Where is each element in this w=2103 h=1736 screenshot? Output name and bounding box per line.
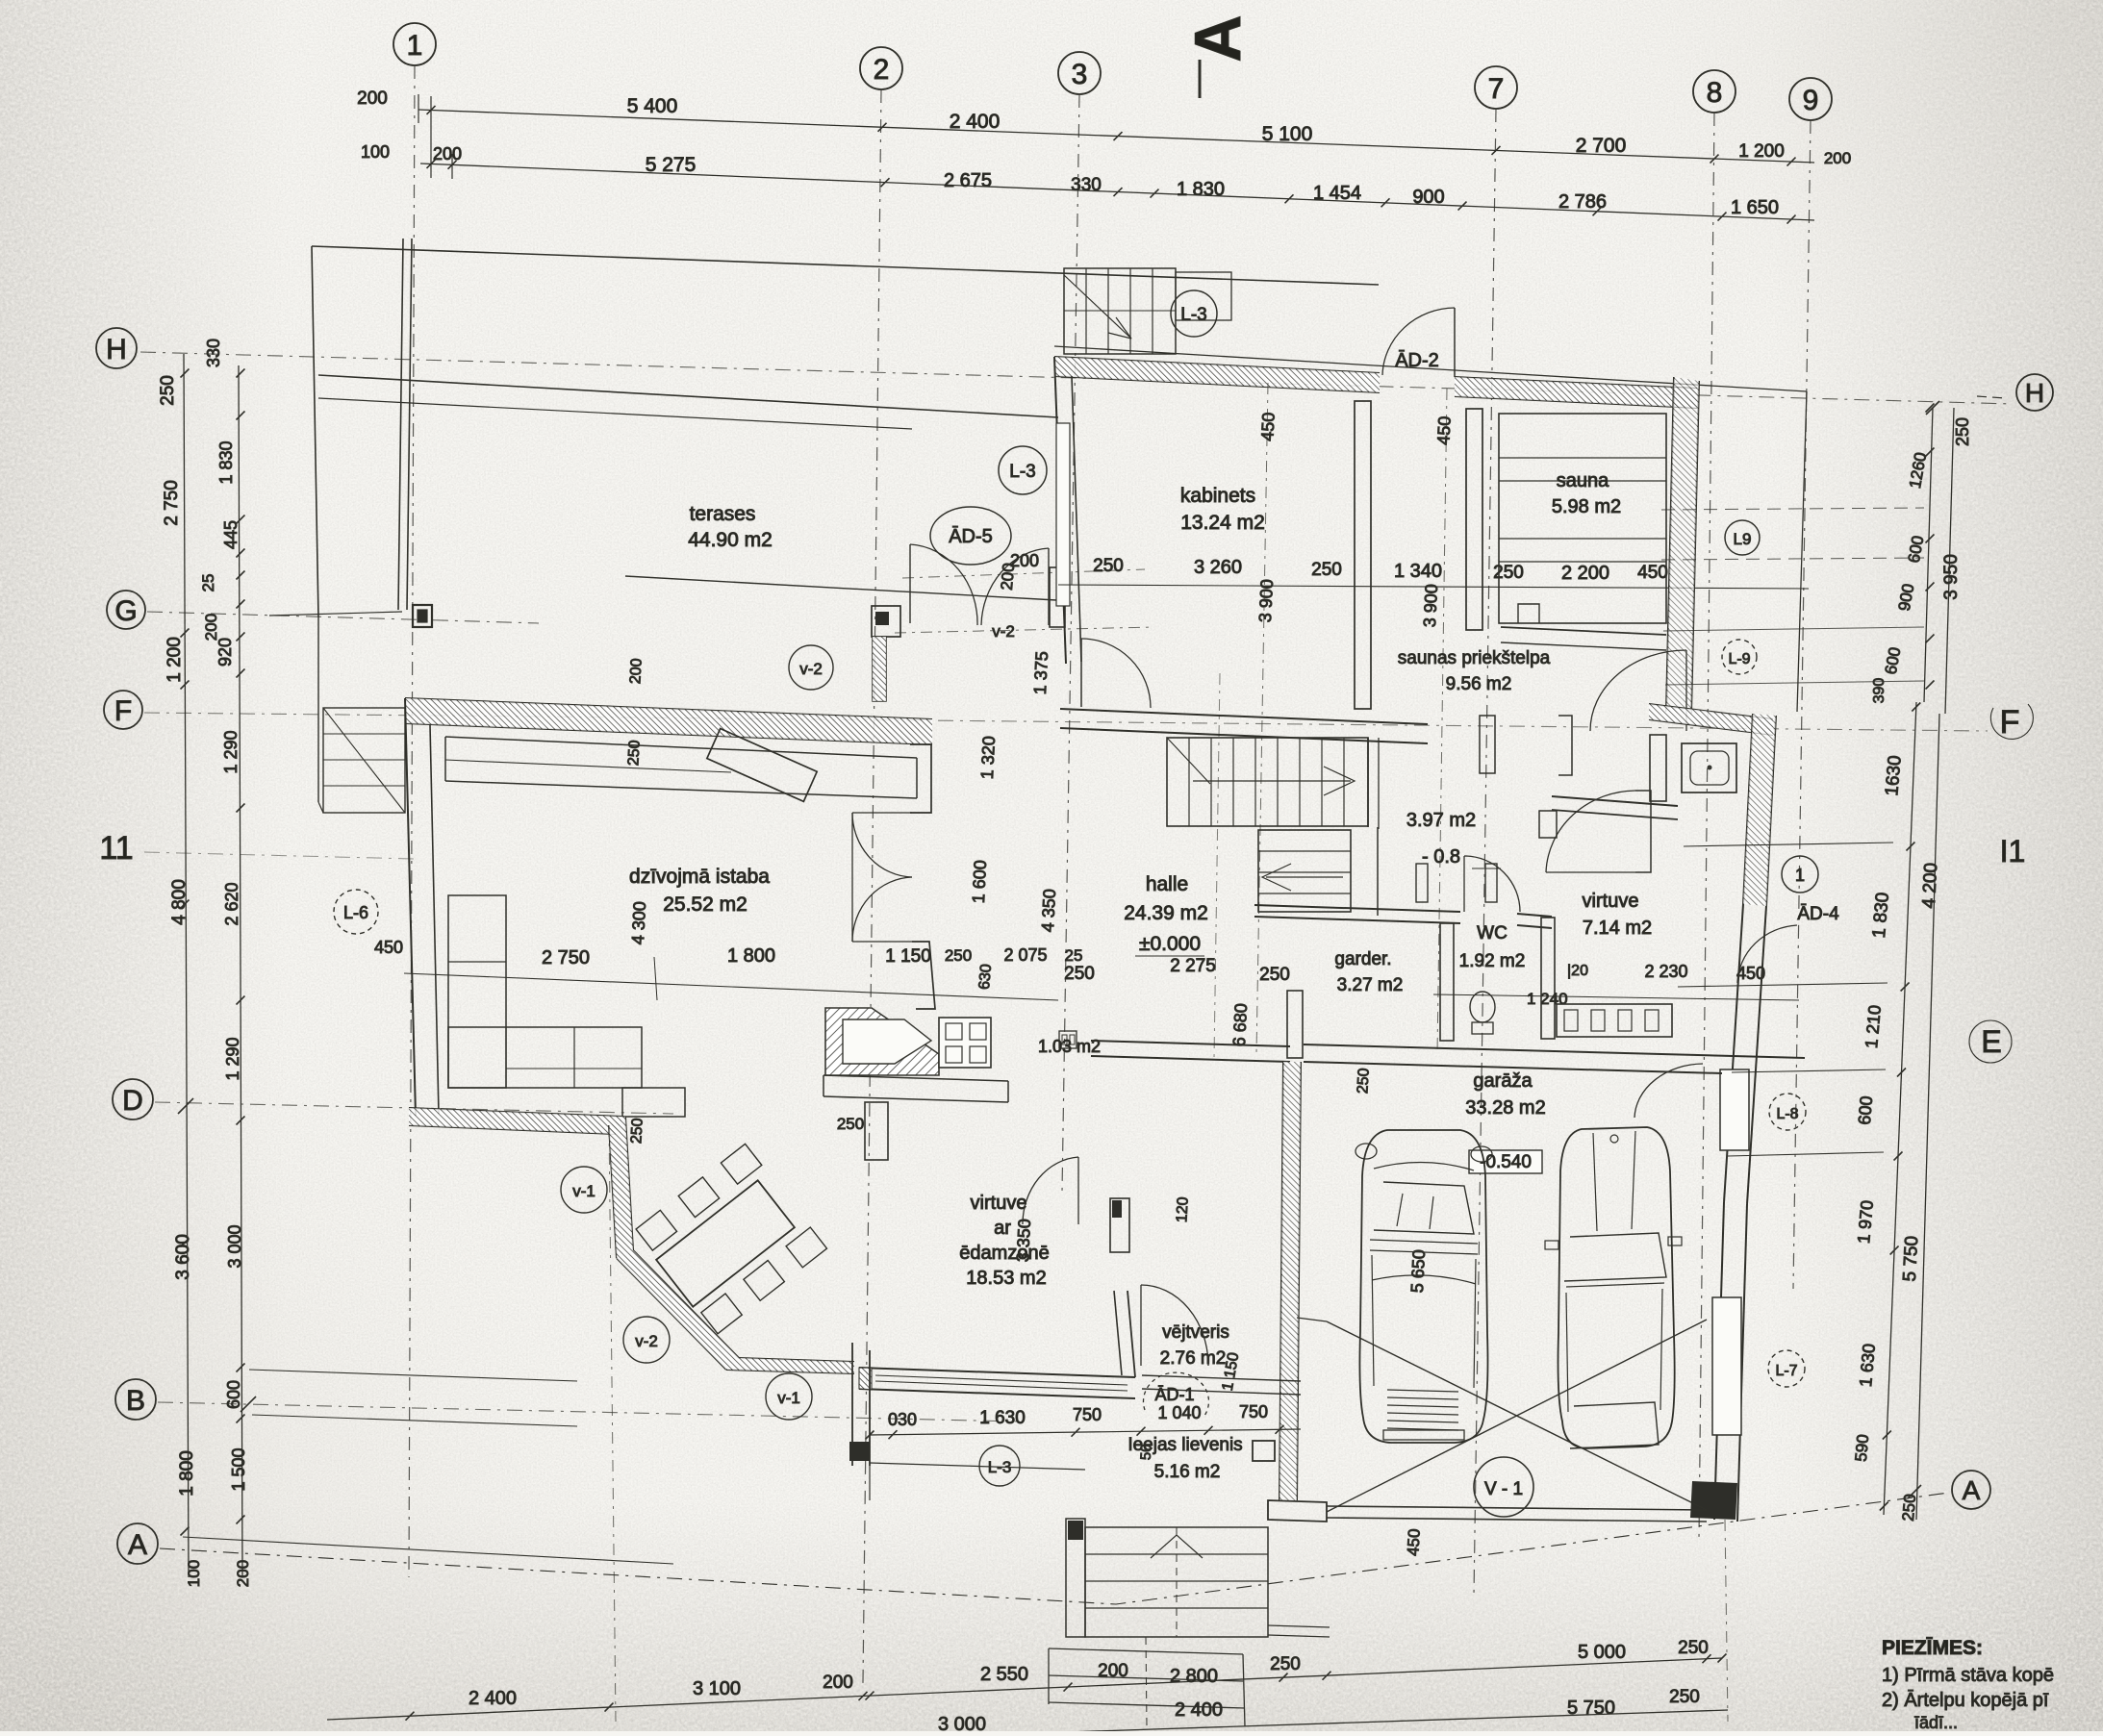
svg-text:100: 100 — [185, 1560, 203, 1587]
grid bubble A right — [1952, 1471, 1990, 1509]
svg-text:1 200: 1 200 — [1738, 141, 1785, 162]
grid line D — [155, 1102, 673, 1114]
svg-text:1 240: 1 240 — [1527, 990, 1568, 1008]
left inner tick y1165 — [237, 1117, 245, 1125]
right dim line upper — [1924, 408, 1933, 702]
door arc to vejtveris — [1023, 1157, 1078, 1224]
circle L-6 — [334, 890, 378, 934]
svg-text:2 275: 2 275 — [1170, 956, 1216, 976]
dim tick line1 x1555 — [1492, 146, 1501, 155]
svg-text:kabinets: kabinets — [1180, 485, 1255, 507]
terrace column block — [413, 605, 432, 627]
svg-text:590: 590 — [1852, 1434, 1872, 1463]
svg-text:5 275: 5 275 — [646, 154, 697, 176]
svg-text:5 100: 5 100 — [1262, 123, 1313, 145]
svg-text:4 300: 4 300 — [628, 901, 649, 945]
grid bubble B left — [115, 1379, 156, 1420]
kitchen peninsula stub — [865, 1102, 888, 1160]
svg-text:200: 200 — [1010, 551, 1039, 570]
rtick 470 — [1926, 448, 1935, 457]
rltick 1566 — [1880, 1502, 1888, 1511]
sauna heater notch — [1518, 604, 1539, 623]
toilet — [1470, 992, 1495, 1022]
v-2 centreline dash b — [895, 627, 1154, 633]
rltick 880 — [1906, 843, 1914, 851]
svg-text:2 400: 2 400 — [469, 1688, 517, 1709]
garage door lines — [1327, 1506, 1707, 1510]
svg-text:Ieejas lievenis: Ieejas lievenis — [1128, 1435, 1242, 1455]
porch right column — [1253, 1441, 1275, 1461]
svg-text:1 290: 1 290 — [221, 730, 241, 773]
south wall diagonal — [617, 1258, 726, 1370]
living room window ledge bottom — [445, 781, 917, 798]
svg-text:v-2: v-2 — [635, 1332, 658, 1350]
circle L-8 — [1769, 1094, 1806, 1130]
svg-text:250: 250 — [1270, 1654, 1301, 1674]
svg-text:vējtveris: vējtveris — [1162, 1322, 1229, 1343]
rltick 1202 — [1894, 1152, 1903, 1161]
svg-text:1 830: 1 830 — [216, 440, 236, 484]
grid bubble 9 — [1789, 78, 1832, 120]
circle v-1 lower — [766, 1373, 812, 1420]
dim connector 1a — [418, 94, 419, 123]
svg-text:450: 450 — [1404, 1528, 1423, 1556]
svg-text:3 950: 3 950 — [1941, 554, 1962, 600]
svg-text:750: 750 — [1239, 1402, 1268, 1422]
svg-text:250: 250 — [158, 375, 178, 406]
svg-text:250: 250 — [1899, 1494, 1919, 1522]
svg-text:3 000: 3 000 — [938, 1714, 986, 1731]
svg-text:2 230: 2 230 — [1644, 962, 1687, 981]
svg-text:450: 450 — [1637, 563, 1668, 583]
svg-text:250: 250 — [1953, 417, 1972, 446]
stairs break diag — [1167, 738, 1210, 784]
terrace door v-2 arcs — [909, 544, 911, 623]
left outer tick y1592 — [181, 1527, 190, 1536]
svg-text:250: 250 — [1678, 1638, 1709, 1658]
svg-text:1 290: 1 290 — [223, 1037, 242, 1080]
outdoor stair diagonal — [323, 708, 405, 813]
jamb wall left of terrace doors — [872, 606, 900, 637]
north wall right of AD-2 — [1455, 377, 1697, 389]
grid line B — [158, 1402, 1020, 1422]
svg-text:v-1: v-1 — [572, 1182, 595, 1200]
left inner tick y1580 — [237, 1516, 245, 1524]
right dim line outer — [1945, 408, 1954, 714]
grid line H — [140, 352, 2013, 404]
svg-text:100: 100 — [361, 142, 390, 162]
svg-text:5.16 m2: 5.16 m2 — [1154, 1462, 1221, 1482]
right A tick — [1908, 1485, 1921, 1498]
sofa cushion split — [448, 961, 506, 963]
svg-text:2 750: 2 750 — [542, 947, 590, 969]
svg-text:virtuve: virtuve — [1583, 891, 1639, 912]
east partition line 2 — [1678, 983, 1888, 987]
svg-text:V - 1: V - 1 — [1484, 1479, 1523, 1499]
left inner tick y540 — [237, 516, 245, 524]
grid tick B — [241, 1396, 256, 1412]
car 2 in garage — [1545, 1127, 1682, 1448]
dim tick line2 x920 — [881, 178, 890, 187]
virtuve north wall jamb — [1539, 811, 1557, 838]
svg-text:2 400: 2 400 — [950, 111, 1001, 133]
svg-text:450: 450 — [1257, 412, 1279, 441]
kabinets door arc — [1081, 639, 1151, 708]
svg-text:25: 25 — [199, 574, 217, 592]
svg-text:6 680: 6 680 — [1229, 1003, 1251, 1047]
svg-text:3 000: 3 000 — [225, 1224, 244, 1268]
bdim tick 904 — [866, 1692, 874, 1700]
svg-text:-0.540: -0.540 — [1480, 1152, 1532, 1172]
label ellipse AD-5 — [930, 507, 1011, 565]
dim tick line1 x448 — [427, 106, 436, 114]
svg-text:1 800: 1 800 — [727, 945, 775, 967]
rtick 424 — [1926, 404, 1935, 413]
grid bubble G left — [107, 591, 145, 629]
bdim tick 1774 — [1703, 1654, 1711, 1663]
v-2 wall below jamb — [873, 637, 886, 701]
bdim tick 1334 — [1280, 1673, 1288, 1682]
rltick 735 — [1912, 703, 1920, 712]
svg-text:44.90 m2: 44.90 m2 — [688, 529, 773, 551]
south wall west vertical — [609, 1125, 617, 1258]
svg-text:250: 250 — [625, 740, 643, 767]
svg-text:L-7: L-7 — [1775, 1363, 1797, 1379]
entry steps — [1085, 1527, 1268, 1637]
sauna interior box — [1499, 414, 1666, 623]
svg-text:garder.: garder. — [1334, 949, 1391, 969]
dim tick line1 x917 — [878, 123, 887, 132]
walk edge right of steps — [1268, 1625, 1330, 1627]
svg-text:L-3: L-3 — [1180, 305, 1206, 325]
living room north wall outer — [405, 698, 932, 719]
dim line at A — [183, 1537, 673, 1564]
left outer tick y388 — [181, 369, 190, 378]
svg-text:ĀD-5: ĀD-5 — [949, 525, 993, 547]
left inner tick y662 — [237, 633, 245, 642]
dim tick line2 x1162 — [1114, 188, 1123, 196]
left inner tick y598 — [237, 571, 245, 580]
AD-2 door leaf — [1454, 308, 1456, 377]
entry tick 1330 — [1276, 1425, 1284, 1434]
B row lower line — [252, 1415, 577, 1426]
bottom vertical dash a — [609, 1125, 616, 1722]
south wall bottom horizontal — [726, 1370, 854, 1373]
svg-text:5 750: 5 750 — [1900, 1235, 1922, 1282]
stair right wall — [1367, 738, 1369, 827]
entry tick 904 — [866, 1431, 874, 1440]
svg-text:2 400: 2 400 — [1175, 1699, 1223, 1721]
svg-text:1 210: 1 210 — [1862, 1004, 1885, 1049]
svg-text:1 500: 1 500 — [229, 1447, 248, 1491]
svg-text:ĀD-1: ĀD-1 — [1154, 1385, 1194, 1404]
lower approach steps — [1049, 1648, 1243, 1654]
V-1 circle — [1474, 1457, 1533, 1517]
left inner tick y575 — [237, 549, 245, 558]
svg-text:900: 900 — [1412, 187, 1444, 208]
garage door corner L — [1268, 1500, 1327, 1522]
section marker A bar — [1199, 60, 1202, 98]
svg-text:11: 11 — [99, 830, 133, 867]
ledge inner line — [445, 760, 731, 772]
svg-text:920: 920 — [215, 638, 235, 667]
rltick 1300 — [1890, 1246, 1899, 1255]
circle v-1 upper — [561, 1167, 607, 1213]
east wall hatched mid — [1743, 714, 1753, 904]
margin shading bottom-left blob — [0, 962, 673, 1731]
svg-text:33.28 m2: 33.28 m2 — [1465, 1097, 1545, 1119]
svg-text:L-8: L-8 — [1776, 1106, 1798, 1122]
stairs flight 1 — [1167, 738, 1368, 826]
svg-text:200: 200 — [1098, 1661, 1128, 1681]
svg-text:9.56 m2: 9.56 m2 — [1446, 674, 1512, 694]
svg-text:L-6: L-6 — [343, 903, 368, 922]
kabinets west wall — [1054, 357, 1066, 664]
svg-text:L-9: L-9 — [1728, 651, 1750, 667]
B row upper line — [249, 1370, 577, 1381]
ledge left end — [444, 737, 446, 781]
landing south wall — [1254, 905, 1460, 912]
dim tick line1 x1862 — [1787, 158, 1796, 166]
dim tick line2 x1340 — [1285, 194, 1294, 203]
left outer tick y940 — [181, 900, 190, 909]
dim tick line2 x1862 — [1787, 215, 1796, 224]
sauna bench lines — [1499, 457, 1666, 459]
east partition line 3 — [1732, 1069, 1886, 1072]
terrace north edge — [318, 375, 1058, 417]
left inner tick y840 — [237, 804, 245, 813]
upper stair diagonal — [1064, 275, 1131, 339]
svg-text:L9: L9 — [1734, 530, 1752, 548]
dim tick line2 x1520 — [1458, 202, 1467, 211]
window L-7 block — [1712, 1297, 1741, 1435]
svg-text:25: 25 — [1065, 946, 1083, 965]
svg-text:1630: 1630 — [1882, 755, 1906, 797]
entry tick 1256 — [1204, 1426, 1213, 1435]
bottom dim line 2 — [924, 1710, 1728, 1736]
jamb wall right of terrace doors — [1050, 567, 1065, 627]
dining table — [634, 1144, 827, 1335]
living room window ledge top — [445, 737, 917, 758]
garage east wall — [1714, 1202, 1724, 1520]
terrace south step edge — [625, 576, 1056, 600]
margin shading right — [1770, 0, 2103, 1731]
stairs flight1 arrow — [1193, 780, 1351, 782]
svg-text:250: 250 — [1311, 560, 1342, 580]
grid line II short — [144, 852, 414, 859]
svg-text:1 200: 1 200 — [165, 637, 185, 683]
entry steps centre dash — [1176, 1527, 1178, 1637]
wall stub hall-vejtveris — [1110, 1198, 1129, 1252]
dim connector 1c — [451, 154, 453, 179]
svg-text:B: B — [126, 1385, 145, 1417]
dim tick line2 x470 — [448, 161, 457, 169]
svg-text:8: 8 — [1707, 77, 1723, 109]
wall pieces below sauna — [1480, 716, 1495, 773]
svg-text:200: 200 — [1824, 149, 1851, 167]
left inner tick y432 — [237, 412, 245, 420]
garage door X brace — [1327, 1321, 1707, 1510]
dim tick line2 x448 — [427, 160, 436, 168]
dim tick line1 x1162 — [1114, 132, 1123, 140]
level box -0.540 — [1469, 1150, 1542, 1173]
svg-text:450: 450 — [374, 938, 403, 957]
garage apron line — [1297, 1318, 1327, 1321]
terrace west wall outer — [398, 239, 403, 610]
priekstelpa south wall — [1649, 704, 1773, 719]
svg-text:1 800: 1 800 — [177, 1450, 197, 1497]
svg-text:445: 445 — [221, 520, 241, 549]
left inner tick y1422 — [237, 1364, 245, 1372]
grid bubble 2 — [860, 47, 902, 89]
window L-8 block — [1720, 1069, 1749, 1150]
grid line A — [160, 1493, 1949, 1604]
upper stair block — [1064, 268, 1176, 354]
svg-text:1 040: 1 040 — [1157, 1403, 1201, 1422]
porch edge lines — [870, 1463, 1085, 1470]
bdim tick 1379 — [1323, 1672, 1331, 1680]
hearth hatched — [825, 1008, 939, 1075]
living room north wall hatch — [405, 698, 932, 744]
grid bubble 3 — [1058, 52, 1101, 94]
grid line G — [147, 612, 539, 623]
rtick 712 — [1926, 681, 1935, 690]
priekstelpa door arc — [1590, 650, 1686, 731]
svg-text:200: 200 — [202, 614, 220, 641]
svg-text:120: 120 — [1174, 1196, 1191, 1223]
svg-text:dzīvojmā istaba: dzīvojmā istaba — [629, 866, 770, 888]
left inner tick y1475 — [237, 1415, 245, 1423]
terrace west wall inner — [407, 239, 412, 610]
svg-text:24.39 m2: 24.39 m2 — [1124, 902, 1208, 924]
svg-text:250: 250 — [628, 1118, 646, 1145]
svg-text:3 100: 3 100 — [693, 1678, 741, 1699]
svg-text:E: E — [1981, 1024, 2001, 1059]
building east wall upper — [1666, 377, 1674, 712]
bdim tick 426 — [406, 1712, 415, 1721]
east partition line 4 — [1728, 1152, 1884, 1156]
AD-4 door arc — [1737, 925, 1797, 983]
wall west of shower — [1650, 735, 1666, 801]
dim tick line1 x1782 — [1710, 155, 1719, 164]
svg-text:200: 200 — [823, 1673, 853, 1693]
dim tick line2 x1660 — [1593, 207, 1602, 215]
right H tick — [1926, 401, 1939, 415]
left inner tick y1040 — [237, 996, 245, 1005]
circle L9 — [1725, 520, 1760, 555]
kabinets south wall — [1060, 709, 1428, 724]
svg-text:1.03 m2: 1.03 m2 — [1038, 1037, 1101, 1056]
svg-text:330: 330 — [204, 339, 223, 367]
svg-text:7: 7 — [1488, 73, 1505, 105]
svg-text:200: 200 — [627, 658, 645, 685]
grid line 1 — [409, 65, 415, 1577]
bdim tick 1110 — [1064, 1683, 1073, 1692]
entry dim line — [870, 1429, 1301, 1435]
svg-text:ar: ar — [994, 1218, 1011, 1239]
svg-text:L-3: L-3 — [1009, 462, 1035, 482]
svg-text:18.53 m2: 18.53 m2 — [966, 1268, 1046, 1289]
svg-text:±0.000: ±0.000 — [1139, 933, 1201, 955]
terrace north edge lower — [318, 398, 912, 429]
svg-text:600: 600 — [224, 1380, 243, 1409]
bdim tick 897 — [859, 1692, 868, 1700]
top dimension line 1 — [418, 110, 1814, 163]
margin shading top-right blob — [1443, 0, 2103, 481]
svg-text:5.98 m2: 5.98 m2 — [1552, 496, 1621, 517]
label circle L-3 terrace — [999, 446, 1047, 494]
garderobe east wall — [1440, 923, 1454, 1041]
circle v-2 mid — [623, 1317, 670, 1363]
hearth white notch — [843, 1019, 931, 1064]
vejtveris east wall — [1128, 1291, 1135, 1377]
stairs flight 2 — [1258, 830, 1351, 912]
svg-text:F: F — [2000, 704, 2020, 741]
bottom vertical dash c — [1725, 1520, 1728, 1722]
svg-text:750: 750 — [1073, 1405, 1102, 1424]
svg-text:5 400: 5 400 — [627, 95, 678, 117]
svg-text:3 350: 3 350 — [1013, 1219, 1034, 1263]
circle L-3 entry — [979, 1446, 1020, 1486]
svg-text:250: 250 — [1259, 965, 1290, 985]
top dimension line 2 — [420, 164, 1814, 220]
svg-text:v-2: v-2 — [799, 660, 823, 678]
garage west wall — [1280, 1062, 1283, 1500]
kabinets east wall — [1355, 401, 1371, 709]
svg-text:250: 250 — [1669, 1687, 1700, 1707]
grid line 3 — [1062, 94, 1079, 1193]
rltick 1026 — [1901, 983, 1910, 992]
svg-text:WC: WC — [1477, 923, 1508, 943]
svg-text:450: 450 — [1433, 415, 1455, 445]
svg-text:2 786: 2 786 — [1558, 191, 1607, 213]
living room west wall inner — [430, 725, 439, 1114]
svg-text:1 375: 1 375 — [1030, 651, 1051, 695]
living room inner dim line — [404, 973, 1058, 1000]
svg-text:A: A — [128, 1529, 147, 1561]
sofa seat horizontal — [448, 1027, 642, 1088]
svg-text:2) Ārtelpu kopējā pī: 2) Ārtelpu kopējā pī — [1882, 1689, 2049, 1711]
entry tick 928 — [889, 1430, 898, 1439]
grid bubble H right — [2016, 374, 2053, 411]
svg-text:I1: I1 — [2000, 834, 2026, 868]
stairs flight2 arrow — [1266, 876, 1343, 878]
svg-text:1: 1 — [407, 30, 423, 62]
svg-text:3.97 m2: 3.97 m2 — [1406, 810, 1476, 831]
svg-text:A: A — [1963, 1475, 1981, 1505]
svg-text:2: 2 — [874, 54, 890, 86]
circle v-2 living — [789, 645, 833, 690]
svg-text:3 900: 3 900 — [1255, 579, 1277, 623]
svg-text:25.52 m2: 25.52 m2 — [663, 893, 747, 916]
grid bubble A left — [117, 1523, 158, 1564]
bdim tick 633 — [605, 1703, 614, 1712]
circle L-7 — [1768, 1350, 1805, 1387]
AD-2 door arc — [1382, 308, 1455, 375]
dim tick line2 x1200 — [1151, 189, 1159, 198]
east partition line 1 — [1684, 843, 1893, 846]
sofa end table — [622, 1088, 685, 1117]
east wall upper segment — [910, 744, 931, 813]
left inner tick y700 — [237, 669, 245, 678]
svg-text:garāža: garāža — [1473, 1070, 1533, 1092]
outline left lower — [317, 617, 319, 802]
site outline top edge — [312, 246, 1379, 285]
kabinets dim line — [1058, 585, 1809, 589]
coarse grain on margins — [0, 0, 298, 1731]
counter edge — [823, 1075, 1008, 1081]
svg-text:|20: |20 — [1567, 963, 1588, 979]
